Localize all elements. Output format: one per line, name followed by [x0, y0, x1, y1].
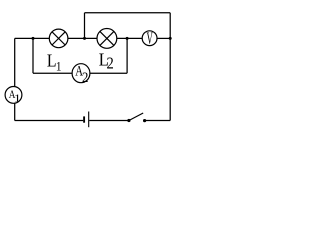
wire: main line V to right wire [157, 37, 170, 39]
ammeter A2 circle [72, 64, 90, 83]
wire: A2 branch left vertical [32, 38, 34, 73]
wire: main line L2 to V [117, 37, 142, 39]
switch right terminal [143, 119, 146, 122]
node junction at (84.5,38) [83, 37, 86, 40]
svg-text:2: 2 [82, 69, 89, 85]
lamp L2 [97, 29, 117, 49]
wire: top wire [85, 12, 171, 14]
wire: bottom middle (battery to switch) [89, 120, 129, 122]
lamp L1 [49, 29, 68, 48]
wire: A2 branch left horizontal [33, 72, 72, 74]
wire: bottom left (corner to battery) [15, 120, 84, 122]
svg-text:1: 1 [14, 92, 21, 104]
wire: top branch vertical [84, 13, 86, 39]
wire: main line L1 to L2 [68, 37, 97, 39]
wire: bottom right (switch to corner) [145, 120, 171, 122]
battery negative plate (short thick) [83, 116, 85, 122]
battery positive plate (long thin) [88, 112, 90, 128]
switch lever [129, 113, 143, 121]
node junction at (170,38) [169, 37, 172, 40]
wire: A2 branch right horizontal [90, 72, 127, 74]
wire: left vertical lower (A1 to bottom corner) [14, 103, 16, 120]
svg-text:1: 1 [56, 59, 62, 74]
switch left terminal [127, 119, 130, 122]
svg-text:V: V [147, 29, 154, 48]
wire: left vertical upper (corner to A1) [14, 38, 16, 86]
voltmeter V circle [142, 31, 157, 46]
ammeter A1 circle [5, 87, 22, 104]
node junction at (127,38) [126, 37, 129, 40]
svg-text:2: 2 [107, 54, 114, 72]
wire: right vertical [169, 13, 171, 121]
node junction at (33,38) [32, 37, 35, 40]
wire: A2 branch right vertical [126, 38, 128, 73]
wire: main line left segment (corner to L1) [15, 37, 50, 39]
